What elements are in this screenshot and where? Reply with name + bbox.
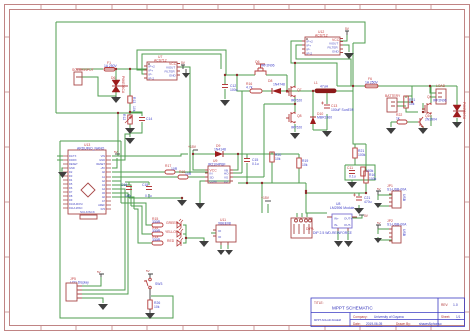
transistor Q10: [418, 117, 423, 127]
gnd arrows LM2596: [334, 241, 353, 247]
svg-text:Q8: Q8: [297, 114, 302, 118]
svg-text:D4: D4: [69, 178, 73, 182]
svg-text:Q4: Q4: [427, 95, 432, 99]
svg-text:LCD Display: LCD Display: [70, 281, 89, 285]
svg-text:P6KE36CA: P6KE36CA: [121, 76, 125, 94]
ground squiggle U7: [182, 69, 190, 78]
wire vs node: [264, 104, 295, 177]
wire loop left down to divider: [55, 22, 57, 113]
svg-text:100u: 100u: [230, 88, 238, 92]
ground under battery sense: [386, 128, 396, 134]
svg-text:5V: 5V: [377, 221, 381, 225]
capacitor C21: [353, 194, 362, 201]
wire l1 to battery rail: [352, 43, 354, 86]
+15V flag: [193, 149, 198, 151]
ground under U12: [344, 53, 354, 59]
svg-text:XBEE08: XBEE08: [218, 222, 231, 226]
capacitor C11: [349, 171, 355, 174]
resistor R24: [364, 171, 368, 183]
svg-text:1A 250V: 1A 250V: [104, 64, 118, 68]
svg-text:LM2596 Module: LM2596 Module: [330, 206, 354, 210]
svg-text:+5V: +5V: [100, 166, 105, 170]
resistor R21: [353, 148, 357, 158]
svg-text:Date:: Date:: [353, 322, 361, 326]
svg-text:University of Guyana: University of Guyana: [374, 315, 404, 319]
resistor R18: [178, 175, 188, 179]
wire sense divider top: [353, 86, 366, 171]
wire lcd gnd: [82, 298, 103, 303]
svg-text:R12: R12: [122, 114, 126, 120]
wire ho gate drive: [241, 91, 243, 173]
svg-text:D0/RX: D0/RX: [69, 158, 77, 162]
wire solar VIN drop: [117, 113, 119, 156]
svg-text:10k: 10k: [409, 102, 415, 106]
svg-text:1N4748: 1N4748: [273, 83, 285, 87]
svg-text:IRF520: IRF520: [291, 126, 302, 130]
svg-text:R13: R13: [132, 97, 136, 103]
svg-text:D8: D8: [69, 194, 73, 198]
svg-text:USB: USB: [402, 229, 406, 237]
inductor L1: [315, 89, 336, 93]
svg-text:Company:: Company:: [353, 315, 368, 319]
wire u11 stub: [211, 233, 228, 249]
svg-text:D3: D3: [69, 174, 73, 178]
svg-text:D5: D5: [69, 182, 73, 186]
wire r16 d8 row: [237, 75, 287, 91]
svg-text:OUT-: OUT-: [344, 223, 351, 227]
wire a5 i2c scl: [82, 193, 128, 294]
svg-text:47uH: 47uH: [320, 85, 329, 89]
svg-text:D6: D6: [69, 186, 73, 190]
svg-text:IP-2: IP-2: [149, 76, 155, 80]
resistor R20: [270, 152, 274, 162]
mosfet Q4: [422, 103, 431, 114]
ground under C21: [354, 208, 364, 214]
svg-text:2N3904: 2N3904: [425, 118, 437, 122]
svg-text:RESET: RESET: [69, 162, 78, 166]
gnd arrow leds: [199, 241, 209, 247]
svg-text:OUT+: OUT+: [344, 217, 352, 221]
wire arduino gnd row: [112, 131, 130, 160]
arduino logo diamond: [81, 183, 95, 197]
svg-text:+15V: +15V: [188, 145, 197, 149]
svg-text:330R: 330R: [152, 229, 161, 233]
wire switch node row: [287, 90, 353, 92]
wire c21 stem: [358, 193, 360, 208]
capacitor C15: [244, 159, 250, 162]
arduino left pin names: [69, 154, 83, 210]
svg-text:330R: 330R: [152, 238, 161, 242]
resistor R16: [250, 89, 262, 93]
ground under C11 box: [347, 182, 357, 188]
wire a0 row: [112, 171, 208, 173]
ground mid caps: [177, 200, 187, 206]
svg-text:RESET: RESET: [96, 162, 105, 166]
svg-text:10k: 10k: [275, 157, 281, 161]
TVS diode D6: [112, 80, 128, 92]
svg-text:A2: A2: [102, 179, 106, 183]
fuse F1: [104, 68, 115, 72]
svg-text:GND: GND: [169, 73, 177, 77]
wire r13 stem: [129, 69, 131, 137]
wire lm2596 in: [305, 183, 307, 191]
wire r20 stem: [271, 152, 273, 183]
svg-text:C14: C14: [146, 117, 152, 121]
wire solarinput to fuse: [81, 68, 147, 70]
svg-text:D1/TX: D1/TX: [69, 154, 77, 158]
5V flag at U12: [345, 31, 349, 35]
gnd arrows U11: [217, 250, 233, 255]
wire arduino 5v stub: [112, 158, 117, 168]
solar input connector JP: [74, 69, 82, 85]
svg-text:A0: A0: [102, 170, 106, 174]
svg-text:100k: 100k: [358, 153, 366, 157]
svg-text:10R: 10R: [171, 167, 178, 171]
ground under R12: [125, 138, 135, 144]
ground com: [195, 203, 205, 209]
resistor R22b: [361, 167, 365, 176]
svg-text:100uF SunE09: 100uF SunE09: [331, 108, 354, 112]
arduino pin stubs: [63, 156, 111, 209]
svg-text:GND: GND: [332, 49, 340, 53]
svg-text:shawnAlphonso: shawnAlphonso: [419, 322, 442, 326]
resistor R19: [297, 158, 301, 168]
wire solar divider top bus: [56, 112, 142, 114]
svg-text:DIP 2.5 WD-REINFORCE: DIP 2.5 WD-REINFORCE: [313, 231, 353, 235]
resistor R25: [404, 96, 408, 108]
svg-text:1A 250V: 1A 250V: [365, 81, 379, 85]
mosfet Q8: [286, 112, 295, 123]
mosfet Q6: [255, 64, 266, 75]
svg-text:GND: GND: [99, 158, 105, 162]
wire c15 stem: [246, 154, 248, 183]
svg-text:LO: LO: [224, 179, 229, 183]
LM2596 module U8: [327, 214, 357, 231]
svg-text:A4: A4: [102, 187, 106, 191]
svg-text:AREF: AREF: [98, 203, 105, 207]
svg-text:IRF2N06: IRF2N06: [433, 99, 447, 103]
IC U9 IR2104: [205, 166, 233, 183]
svg-text:USB: USB: [402, 194, 406, 202]
wire +15v rail: [193, 150, 299, 170]
IC U12 ACS712: [302, 37, 343, 55]
wire led cathodes: [183, 225, 204, 243]
wire r25 q4: [406, 86, 431, 126]
wire c13 stem: [313, 91, 327, 130]
svg-text:ACS712: ACS712: [315, 34, 328, 38]
wire loop2 switch net: [60, 141, 173, 318]
svg-text:10k: 10k: [302, 163, 308, 167]
wire led bus red: [134, 209, 152, 243]
wire lcd 5v: [82, 277, 101, 286]
wire d6 stem: [115, 69, 117, 96]
LOAD connector: [436, 89, 446, 104]
DC-DC converter B1212: [291, 218, 312, 238]
wire a6 row led3: [112, 197, 134, 209]
svg-text:IP-2: IP-2: [307, 51, 313, 55]
svg-text:1N4148: 1N4148: [214, 148, 226, 152]
svg-text:A5: A5: [102, 191, 106, 195]
svg-text:COM: COM: [210, 179, 218, 183]
+15V flag b1212: [265, 200, 271, 202]
wire cap c16 c18 rail: [125, 182, 182, 200]
5V flag LM2596: [359, 214, 364, 216]
svg-text:GND: GND: [69, 166, 75, 170]
fuse F6: [365, 84, 378, 88]
svg-text:A6: A6: [102, 195, 106, 199]
ground under D10 C13: [322, 131, 332, 137]
svg-text:10k: 10k: [154, 305, 160, 309]
svg-text:10R: 10R: [185, 172, 192, 176]
resistor R17: [165, 170, 175, 174]
svg-text:0.1u: 0.1u: [349, 175, 356, 179]
IC U7 ACS712: [144, 62, 180, 80]
svg-text:Q6: Q6: [255, 60, 260, 64]
wire leds mid: [183, 233, 186, 235]
IC U11: [213, 225, 236, 245]
gnd arrow SW3: [145, 313, 155, 319]
5V flag LCD: [99, 274, 104, 277]
arduino right pin names: [96, 154, 105, 211]
capacitor C14: [139, 118, 145, 121]
svg-text:IR2104PBF: IR2104PBF: [208, 163, 226, 167]
svg-text:3V3: 3V3: [100, 207, 105, 211]
svg-text:LOAD: LOAD: [436, 84, 446, 88]
svg-text:470u: 470u: [364, 200, 372, 204]
svg-text:D10/LMOSI: D10/LMOSI: [69, 202, 83, 206]
svg-text:1/1: 1/1: [456, 315, 461, 319]
wire c12 stem: [224, 75, 226, 99]
capacitor C12: [222, 85, 228, 88]
trimmer R12: [128, 115, 132, 124]
capacitor C16: [126, 187, 132, 190]
wire solar VIOUT big loop top: [56, 22, 365, 43]
wire arduino left stubs: [57, 156, 63, 172]
svg-text:D8: D8: [268, 79, 272, 83]
svg-text:0.1u: 0.1u: [252, 162, 259, 166]
diode D8: [272, 88, 281, 94]
wire a1 row r18: [112, 176, 208, 178]
svg-text:IN+: IN+: [334, 217, 339, 221]
svg-text:100k: 100k: [369, 177, 377, 181]
svg-text:Sheet:: Sheet:: [441, 315, 450, 319]
svg-text:2019-06-05: 2019-06-05: [366, 322, 383, 326]
wire arduino vin row: [112, 154, 188, 156]
mosfet Q7: [286, 86, 295, 97]
ground under D11: [452, 122, 462, 128]
wire rc filter branch: [130, 112, 142, 133]
resistor R26: [148, 300, 152, 309]
diode D9: [215, 151, 223, 157]
svg-text:L1: L1: [314, 81, 318, 85]
svg-text:ACS712: ACS712: [154, 59, 167, 63]
svg-text:IRF520: IRF520: [291, 99, 302, 103]
diode D10: [310, 117, 316, 124]
wire r21 stem: [354, 144, 356, 165]
svg-text:C11: C11: [347, 166, 353, 170]
wire a4 i2c sda: [82, 189, 125, 290]
5V flag at U7: [181, 65, 185, 69]
wire ir2104 rows: [200, 154, 264, 203]
wire sense divider bottom: [306, 183, 366, 193]
ground under Q10: [418, 128, 428, 134]
wire c11 r22b box: [345, 165, 375, 182]
wire led bus green: [121, 203, 152, 225]
svg-text:D9: D9: [69, 198, 73, 202]
svg-text:330R: 330R: [152, 220, 161, 224]
BATTERY connector: [387, 98, 397, 112]
5V flag arduino: [115, 153, 120, 155]
gnd arrow arduino left: [58, 172, 67, 178]
wire load stub: [430, 86, 436, 97]
svg-text:REV:: REV:: [441, 303, 448, 307]
svg-text:+15V: +15V: [261, 196, 270, 200]
svg-text:D7: D7: [69, 190, 73, 194]
svg-text:Q7: Q7: [297, 88, 302, 92]
wire d10 stem: [312, 91, 314, 130]
gnd arrow arduino top: [125, 128, 135, 134]
wire led bus yellow: [131, 206, 152, 234]
svg-text:4.7k: 4.7k: [246, 86, 253, 90]
wire q7 q8: [294, 97, 296, 132]
gnd arrow LCD: [98, 304, 108, 310]
svg-text:1.0: 1.0: [453, 303, 458, 307]
wire u12 ip loop outer: [291, 41, 337, 86]
svg-text:VIN: VIN: [101, 154, 105, 158]
svg-text:IRF2N06: IRF2N06: [261, 64, 275, 68]
svg-text:5V: 5V: [114, 150, 118, 154]
wire b1212 feeds: [268, 204, 307, 217]
wire r22 q10: [391, 122, 423, 128]
ground under D6: [111, 96, 121, 103]
LED resistor R13b: [152, 241, 163, 245]
svg-text:10u: 10u: [125, 194, 131, 198]
wire u12 ip loop inner: [296, 45, 351, 86]
wire a3 row led2: [112, 185, 131, 206]
capacitor C18: [146, 187, 152, 190]
LED resistor R15: [152, 223, 163, 227]
wire r19 stem: [298, 154, 300, 183]
svg-text:MPPT SCHEMATIC: MPPT SCHEMATIC: [332, 306, 373, 311]
svg-text:SCLK/SCK: SCLK/SCK: [80, 210, 95, 214]
svg-text:A3: A3: [102, 183, 106, 187]
wire battery rail: [337, 85, 457, 87]
svg-text:MPPT-SOLAR-SCHEM: MPPT-SOLAR-SCHEM: [314, 318, 341, 322]
wire q7 drain top: [295, 63, 337, 86]
wire u12 signals right: [340, 35, 349, 52]
svg-text:D6: D6: [111, 76, 115, 80]
svg-text:MBR1560: MBR1560: [317, 116, 332, 120]
wire u7 wrap loop outer: [137, 50, 237, 75]
svg-text:C18: C18: [142, 183, 148, 187]
resistor R13: [128, 96, 132, 103]
svg-text:TITLE:: TITLE:: [314, 301, 324, 305]
ground under Q8: [290, 133, 300, 139]
svg-text:A1: A1: [102, 175, 106, 179]
svg-text:P6KE36CA: P6KE36CA: [462, 102, 466, 120]
svg-text:100k: 100k: [366, 169, 374, 173]
wire solar minus: [81, 77, 116, 96]
svg-text:10k: 10k: [132, 106, 136, 112]
ground under C12: [220, 100, 230, 106]
svg-text:IN-: IN-: [334, 223, 338, 227]
wire lm2596 out: [338, 215, 362, 240]
wire tvs2 stem: [456, 86, 458, 122]
wire q6 row: [225, 74, 287, 76]
wire a2 row led: [112, 180, 121, 182]
capacitor C13: [321, 102, 330, 109]
svg-text:5V: 5V: [97, 270, 101, 274]
svg-text:D2: D2: [69, 170, 73, 174]
resistor R22: [397, 120, 407, 124]
svg-text:5V: 5V: [377, 187, 381, 191]
svg-text:SOLARINPUT: SOLARINPUT: [72, 68, 94, 72]
svg-text:Drawn By:: Drawn By:: [396, 322, 411, 326]
svg-text:BATTERY: BATTERY: [385, 94, 401, 98]
svg-text:A7: A7: [102, 199, 106, 203]
LED resistor R14: [152, 232, 163, 236]
svg-text:ARDUINO_NANO: ARDUINO_NANO: [77, 147, 105, 151]
svg-text:1k: 1k: [396, 117, 400, 121]
svg-text:C16: C16: [121, 183, 127, 187]
TVS diode D11: [453, 105, 465, 117]
Arduino Nano U13: [68, 150, 106, 219]
svg-text:SW3: SW3: [155, 282, 162, 286]
wire u7 wrap loop inner: [142, 54, 221, 74]
svg-text:5V: 5V: [146, 269, 150, 273]
svg-text:RED: RED: [167, 239, 175, 243]
svg-text:0.1u: 0.1u: [145, 194, 152, 198]
wire u7 viout drop: [177, 67, 190, 172]
wire battery pins: [397, 86, 412, 106]
wire com bus: [238, 183, 327, 213]
